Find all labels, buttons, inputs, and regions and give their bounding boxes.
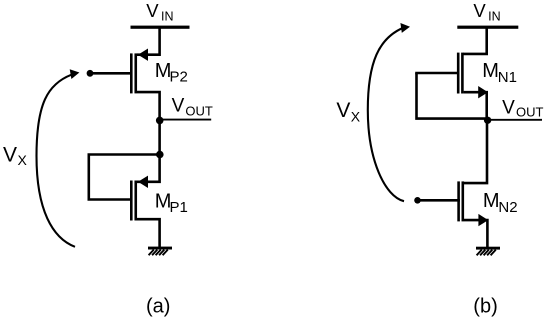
node VOUT dot (b) (484, 117, 491, 124)
wire MP2 drain to VOUT (137, 92, 160, 120)
svg-text:V: V (336, 99, 350, 122)
transistor MN1 gate bar (457, 53, 460, 94)
svg-text:P1: P1 (170, 199, 188, 216)
svg-text:IN: IN (161, 10, 174, 24)
transistor MN1 source arrow (478, 86, 488, 98)
wire VIN rail to MP2 source (137, 28, 160, 55)
svg-text:X: X (18, 152, 28, 168)
wire MP2 gate (89, 72, 133, 75)
VX arc (b) (368, 28, 404, 202)
transistor MN2 gate bar (457, 181, 460, 221)
svg-text:N1: N1 (498, 69, 517, 86)
svg-text:M: M (482, 60, 499, 82)
ground (a) (148, 247, 172, 256)
VX arc arrowhead (a) (70, 69, 80, 79)
label VX (a) (3, 144, 28, 169)
transistor MN2 source arrow (478, 214, 488, 226)
svg-text:V: V (146, 0, 159, 21)
VX arc arrowhead (b) (400, 23, 410, 33)
svg-text:X: X (351, 109, 361, 125)
wire VIN rail to MN1 drain (463, 28, 487, 54)
wire MN1 gate loop to VOUT (417, 73, 488, 119)
wire VOUT to mid node (158, 120, 161, 154)
ground (b) (476, 247, 500, 256)
node mid junction dot (a) (156, 151, 164, 159)
VIN supply rail (a) (131, 26, 190, 29)
node VOUT dot (a) (156, 117, 164, 125)
wire VOUT to MN2 drain (464, 120, 487, 183)
node VOUT label (a) (172, 96, 213, 119)
transistor MP2 gate bar (130, 53, 133, 93)
label MN2 (483, 190, 518, 216)
transistor MP2 source arrow (138, 49, 148, 61)
wire MN1 source to VOUT (464, 92, 487, 120)
svg-text:IN: IN (488, 10, 501, 24)
wire MP1 drain to ground (137, 219, 160, 247)
label MP1 (155, 191, 188, 217)
label VX (b) (336, 99, 360, 125)
wire mid node to MP1 source (137, 155, 160, 182)
node VIN label (a) (146, 0, 173, 23)
transistor MP1 channel bar (134, 181, 137, 221)
transistor MP1 gate bar (130, 181, 133, 221)
svg-text:V: V (502, 97, 515, 118)
svg-text:(a): (a) (146, 296, 170, 318)
node VOUT stub line (b) (488, 119, 542, 121)
wire MN2 source to ground (464, 220, 487, 247)
transistor MN2 channel bar (461, 181, 464, 221)
label MN1 (482, 60, 517, 86)
svg-text:(b): (b) (473, 296, 497, 318)
svg-text:V: V (473, 0, 486, 21)
svg-text:P2: P2 (170, 69, 188, 86)
node MP2 gate dot (87, 70, 94, 77)
node MN2 gate dot (414, 197, 421, 204)
wire MN2 gate (417, 199, 460, 202)
svg-text:OUT: OUT (516, 105, 544, 120)
VIN supply rail (b) (457, 26, 518, 29)
transistor MP2 channel bar (134, 53, 137, 93)
wire MN1 gate (415, 72, 459, 75)
transistor MP1 source arrow (138, 176, 148, 188)
svg-text:M: M (483, 190, 500, 212)
node VIN label (b) (473, 0, 500, 23)
transistor MN1 channel bar (461, 53, 464, 94)
node VOUT label (b) (502, 97, 543, 119)
label MP2 (155, 60, 188, 86)
VX arc (a) (37, 75, 76, 247)
wire MP1 gate loop (89, 155, 160, 200)
svg-text:V: V (3, 144, 17, 167)
svg-text:V: V (172, 96, 185, 117)
svg-text:OUT: OUT (185, 104, 213, 119)
svg-text:N2: N2 (498, 199, 517, 216)
node VOUT stub line (a) (163, 119, 212, 121)
